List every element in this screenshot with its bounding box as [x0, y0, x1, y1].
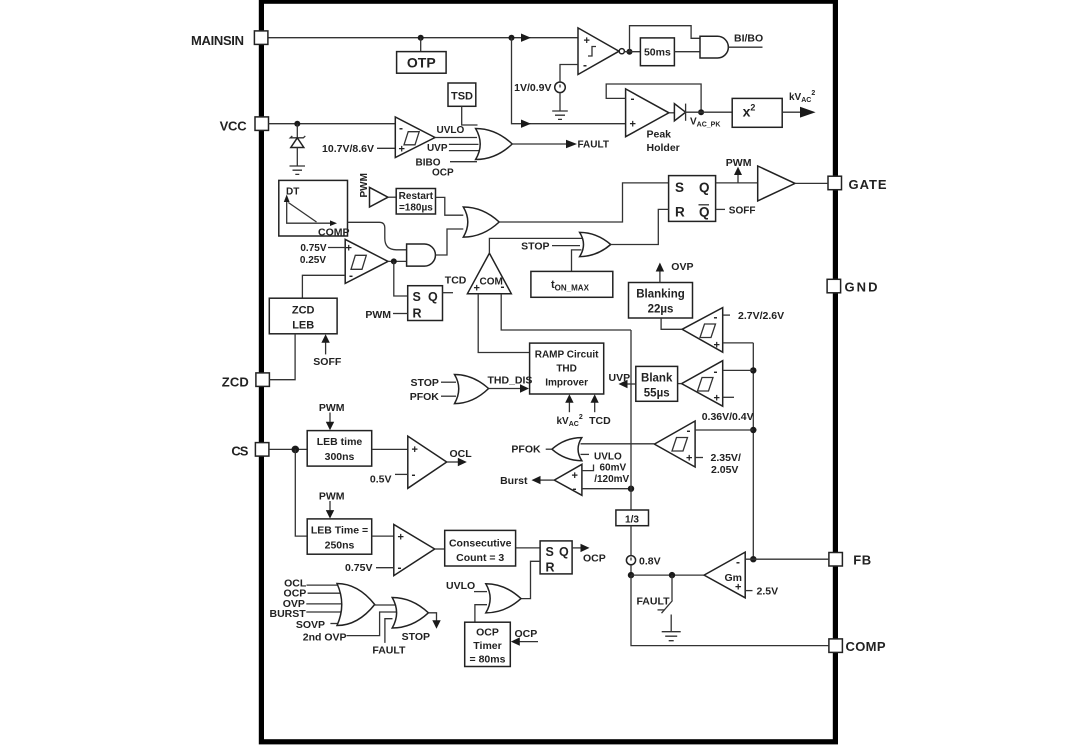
svg-text:PFOK: PFOK — [511, 444, 541, 456]
wire FAULT output — [512, 143, 566, 145]
wire diode to x2 — [686, 111, 733, 113]
svg-text:+: + — [346, 243, 352, 255]
block Blanking 22us — [629, 283, 693, 319]
svg-text:PWM: PWM — [319, 490, 345, 502]
svg-text:1/3: 1/3 — [625, 514, 639, 525]
comparator FB 2.35V/2.05V — [654, 421, 695, 467]
comparator COM up — [467, 253, 511, 294]
svg-text:FAULT: FAULT — [636, 595, 670, 607]
wire node down to S — [394, 261, 408, 296]
arrow OVP out — [659, 270, 661, 283]
svg-text:Q: Q — [699, 205, 710, 220]
svg-text:BI/BO: BI/BO — [734, 33, 763, 45]
wire Qbar SOFF — [716, 208, 725, 210]
wire comp1 out to blanking — [661, 318, 682, 329]
svg-text:COMP: COMP — [846, 639, 886, 654]
svg-text:OCP: OCP — [515, 628, 538, 640]
inverting bubble — [619, 49, 624, 54]
AND gate BI/BO — [700, 36, 728, 58]
wire UVLO to OR — [435, 137, 477, 139]
svg-text:300ns: 300ns — [325, 451, 355, 463]
svg-text:S: S — [546, 545, 554, 559]
svg-text:Blank: Blank — [641, 373, 673, 385]
buffer gate driver — [758, 166, 795, 201]
svg-text:GATE: GATE — [849, 177, 887, 192]
svg-text:2.05V: 2.05V — [711, 464, 738, 476]
op-amp Peak Holder — [626, 89, 669, 137]
svg-text:-: - — [631, 92, 635, 106]
wire 0.36V stub — [723, 396, 734, 398]
svg-text:/120mV: /120mV — [594, 474, 629, 485]
latch SR TCD — [408, 286, 443, 321]
svg-text:-: - — [412, 468, 416, 482]
node bus comp2 — [750, 367, 756, 373]
wire to Gm input — [631, 574, 704, 576]
comparator Burst (left) — [554, 464, 582, 495]
svg-text:TSD: TSD — [451, 91, 473, 103]
arrow PWM into leb1 — [329, 413, 331, 424]
svg-text:=180µs: =180µs — [399, 203, 433, 214]
svg-text:FAULT: FAULT — [372, 644, 406, 656]
svg-text:-: - — [399, 121, 403, 135]
wire branch down to peak holder — [512, 38, 626, 124]
wire COM plus input — [478, 294, 529, 353]
arrow OCP out — [572, 547, 582, 549]
wire 0.5V stub — [395, 473, 408, 475]
wire bus 1/3 upper — [630, 330, 632, 510]
wire Q TCD out — [443, 292, 454, 294]
svg-text:10.7V/8.6V: 10.7V/8.6V — [322, 143, 374, 155]
wire or1 to or2 — [375, 604, 397, 606]
svg-text:OCP: OCP — [432, 168, 454, 179]
svg-text:Timer: Timer — [473, 640, 501, 652]
svg-text:+: + — [714, 393, 720, 405]
svg-text:50ms: 50ms — [644, 47, 671, 59]
wire 0.75V stub — [376, 567, 394, 569]
wire STOP stub thd — [441, 381, 456, 383]
svg-text:Peak: Peak — [647, 129, 672, 141]
svg-text:-: - — [714, 310, 718, 324]
node bus FB — [750, 556, 756, 562]
pin GATE — [828, 176, 842, 190]
wire PFOK stub thd — [441, 395, 456, 397]
wire restart to OR — [436, 197, 464, 215]
wire Q to gate buffer — [716, 182, 758, 184]
switch FAULT — [671, 575, 673, 600]
AND gate restart — [407, 244, 436, 266]
wire UVLO stub reset — [474, 591, 487, 593]
svg-text:0.36V/0.4V: 0.36V/0.4V — [702, 411, 754, 423]
block ZCD LEB — [269, 298, 337, 334]
svg-text:-: - — [714, 365, 718, 379]
wire VCC input — [268, 123, 395, 125]
wire 0.75V stub — [328, 247, 345, 249]
wire minus to ZCD LEB — [302, 275, 345, 298]
svg-text:= 80ms: = 80ms — [470, 654, 506, 666]
OR gate uvlo reset — [486, 584, 521, 613]
svg-text:SOFF: SOFF — [313, 356, 342, 368]
svg-text:OTP: OTP — [407, 55, 436, 71]
svg-text:250ns: 250ns — [325, 539, 355, 551]
svg-text:-: - — [583, 58, 587, 72]
arrow on branch wire — [521, 120, 531, 128]
node junction MAINSIN branch — [509, 35, 515, 41]
block TSD — [448, 83, 476, 106]
wire FAULT to or2 — [385, 619, 393, 643]
svg-text:Q: Q — [428, 290, 438, 304]
wire comp to consec — [435, 548, 445, 550]
svg-text:OCL: OCL — [450, 448, 473, 460]
svg-text:STOP: STOP — [521, 240, 549, 252]
svg-text:COMP: COMP — [318, 226, 350, 238]
arrow OCL out — [447, 461, 460, 463]
source 0.8V clamp — [626, 556, 635, 565]
svg-text:MAINSIN: MAINSIN — [191, 33, 244, 48]
svg-text:OCP: OCP — [583, 553, 606, 565]
block OCP Timer — [465, 622, 511, 666]
svg-text:Q: Q — [699, 180, 710, 195]
comparator OVP 2.7V/2.6V — [682, 308, 723, 353]
svg-text:55µs: 55µs — [644, 388, 670, 400]
svg-text:ZCD: ZCD — [222, 375, 249, 390]
svg-text:-: - — [736, 555, 740, 569]
svg-text:R: R — [675, 205, 685, 220]
wire UVLO stub pfok — [581, 453, 590, 455]
wire ZCD pin to LEB — [269, 334, 295, 380]
svg-text:R: R — [546, 561, 555, 575]
wire FB bus vertical — [752, 343, 754, 559]
svg-text:S: S — [413, 290, 421, 304]
block 50ms — [640, 38, 674, 66]
arrow OCP into timer — [519, 641, 539, 643]
svg-text:-: - — [687, 424, 691, 438]
svg-text:Blanking: Blanking — [636, 288, 685, 300]
svg-text:+: + — [412, 444, 418, 456]
source 1V/0.9V — [555, 82, 566, 93]
wire 2.7V stub — [723, 314, 730, 316]
node junction MAINSIN/OTP — [418, 35, 424, 41]
svg-text:FAULT: FAULT — [578, 140, 609, 151]
op-amp Gm error amp — [704, 552, 745, 598]
OR gate THD_DIS — [455, 375, 489, 404]
svg-text:-: - — [573, 482, 577, 496]
svg-text:OVP: OVP — [671, 261, 693, 273]
svg-text:VCC: VCC — [220, 118, 248, 133]
svg-text:UVLO: UVLO — [446, 580, 475, 592]
wire leb1 to OCL comp — [372, 448, 408, 450]
svg-text:TCD: TCD — [445, 274, 467, 286]
comparator UVP 0.36V/0.4V — [682, 361, 723, 407]
wire kVAC2 output — [782, 111, 801, 113]
pin GND — [827, 279, 841, 293]
wire bus below 1/3 — [630, 526, 632, 556]
block DT curve — [279, 180, 348, 236]
zener diode on VCC — [296, 124, 298, 138]
svg-text:UVP: UVP — [427, 143, 448, 154]
wire feedback over 50ms to AND — [630, 26, 701, 52]
block RAMP Circuit THD Improver — [530, 343, 604, 394]
wire OR to S input — [499, 183, 668, 222]
svg-text:+: + — [735, 582, 741, 594]
svg-text:0.75V: 0.75V — [300, 243, 326, 254]
svg-text:2nd OVP: 2nd OVP — [303, 631, 347, 643]
svg-text:60mV: 60mV — [600, 463, 627, 474]
svg-text:THD_DIS: THD_DIS — [488, 375, 533, 387]
node bus comp3 — [750, 427, 756, 433]
comparator OCP 0.75V — [394, 525, 435, 576]
ground below zener — [290, 166, 306, 174]
wire tonmax to OR — [572, 250, 582, 272]
wire OTP drop — [420, 38, 422, 52]
svg-text:COM: COM — [480, 277, 503, 288]
svg-text:DT: DT — [286, 187, 299, 198]
svg-text:SOVP: SOVP — [296, 619, 325, 631]
arrow SOFF into ZCD LEB — [325, 341, 327, 354]
wire BURST stub — [306, 611, 341, 613]
wire OCP stub — [308, 592, 345, 594]
wire COM apex to OR stop — [489, 238, 582, 253]
svg-text:2.7V/2.6V: 2.7V/2.6V — [738, 310, 784, 322]
wire CS input — [269, 448, 307, 450]
wire BIBO input — [450, 161, 477, 163]
wire R to uvlo OR — [521, 561, 540, 598]
wire stub to plus — [377, 147, 395, 149]
svg-text:0.5V: 0.5V — [370, 474, 392, 486]
wire FB pin to Gm and bus — [745, 558, 829, 560]
svg-text:+: + — [572, 470, 578, 482]
wire 2.35V stub — [695, 457, 703, 459]
arrow on MAINSIN wire — [521, 34, 531, 42]
wire OVP stub — [306, 603, 345, 605]
wire comp3 minus to bus — [695, 429, 753, 431]
block LEB time 300ns — [307, 431, 372, 467]
svg-text:PWM: PWM — [726, 157, 752, 169]
OR gate stop1 — [337, 584, 375, 626]
wire DT output S-curve to AND — [348, 222, 407, 250]
svg-text:0.25V: 0.25V — [300, 255, 326, 266]
wire MAINSIN input line — [268, 37, 578, 39]
arrow Burst out — [539, 479, 554, 481]
svg-text:0.8V: 0.8V — [639, 556, 661, 568]
arrow TCD into RAMP — [594, 401, 596, 412]
wire PWM to R — [393, 313, 408, 315]
OR gate stop2 — [392, 598, 428, 629]
wire THD_DIS to RAMP — [489, 388, 522, 390]
svg-text:+: + — [474, 283, 480, 295]
wire buffer to restart — [388, 196, 396, 198]
svg-text:PFOK: PFOK — [410, 391, 440, 403]
comparator U_BIBO 1V/0.9V — [578, 28, 619, 75]
wire burst minus to bus — [582, 488, 631, 490]
svg-text:+: + — [630, 119, 636, 131]
wire consec to SR — [516, 547, 541, 549]
svg-text:Restart: Restart — [399, 191, 434, 202]
wire comp3 out to PFOK OR — [581, 443, 655, 445]
wire comp2 out — [678, 383, 682, 385]
wire CS branch down to leb2 — [295, 449, 307, 536]
svg-text:LEB Time =: LEB Time = — [311, 524, 368, 536]
svg-text:GND: GND — [845, 280, 878, 295]
svg-text:+: + — [398, 532, 404, 544]
svg-text:Count = 3: Count = 3 — [456, 552, 504, 564]
wire down to COMP pin — [631, 575, 829, 646]
svg-text:+: + — [714, 340, 720, 352]
pin CS — [255, 443, 269, 457]
node diode output — [698, 109, 704, 115]
wire OR stop to R input — [611, 209, 669, 244]
wire peak holder feedback — [606, 84, 701, 112]
wire timer to OR — [475, 605, 487, 623]
node CS branch — [292, 446, 300, 454]
svg-text:Burst: Burst — [500, 475, 528, 487]
svg-text:2.35V/: 2.35V/ — [711, 452, 741, 464]
svg-text:Consecutive: Consecutive — [449, 537, 512, 549]
OR gate PFOK (left) — [552, 438, 582, 461]
node VCC/zener — [294, 121, 300, 127]
comparator OCL — [408, 436, 447, 488]
svg-text:-: - — [349, 269, 353, 283]
svg-text:-: - — [501, 280, 505, 294]
svg-text:THD: THD — [556, 364, 577, 375]
wire 2nd OVP to or2 — [347, 612, 397, 636]
svg-text:TCD: TCD — [589, 415, 611, 427]
pin ZCD — [256, 373, 270, 387]
wire UVP inputs — [449, 144, 480, 150]
arrow PWM tap — [737, 172, 739, 183]
wire comp1 plus to bus — [723, 342, 754, 344]
svg-text:+: + — [686, 453, 692, 465]
svg-text:+: + — [584, 35, 590, 47]
svg-text:UVLO: UVLO — [437, 125, 465, 136]
svg-text:PWM: PWM — [359, 173, 370, 197]
svg-text:SOFF: SOFF — [729, 206, 756, 217]
wire comp2 minus to bus — [723, 369, 754, 371]
svg-text:STOP: STOP — [410, 377, 438, 389]
pin COMP — [829, 639, 843, 653]
latch SR gate — [669, 176, 716, 222]
comparator ZCD 0.75V/0.25V — [345, 239, 388, 283]
pin VCC — [255, 117, 269, 130]
block x squared — [732, 98, 782, 127]
node after bubble — [627, 49, 633, 55]
svg-text:PWM: PWM — [365, 309, 391, 321]
wire AND out to OR — [436, 229, 464, 255]
svg-text:Q: Q — [559, 545, 569, 559]
wire leb2 to comp — [372, 535, 394, 537]
svg-text:ZCD: ZCD — [292, 305, 315, 317]
svg-text:RAMP Circuit: RAMP Circuit — [535, 350, 599, 361]
block OTP — [397, 52, 447, 74]
diode after peak holder — [669, 112, 675, 114]
wire STOP stub — [552, 245, 580, 247]
arrow UVP out of blank — [626, 383, 636, 385]
block 1/3 — [616, 510, 649, 526]
svg-text:1V/0.9V: 1V/0.9V — [514, 82, 551, 94]
svg-text:BURST: BURST — [270, 608, 307, 620]
wire BI/BO output — [728, 46, 762, 48]
svg-text:CS: CS — [231, 444, 248, 459]
arrow kVAC2 into RAMP — [568, 401, 570, 412]
svg-text:S: S — [675, 180, 684, 195]
arrow PWM into leb2 — [329, 501, 331, 512]
svg-text:OCP: OCP — [476, 627, 499, 639]
wire to 50ms — [624, 51, 640, 53]
wire COM minus input — [501, 294, 631, 330]
svg-text:UVP: UVP — [609, 372, 631, 384]
block Consecutive Count — [445, 530, 516, 566]
wire OCL stub — [307, 584, 342, 586]
svg-text:Holder: Holder — [647, 142, 680, 154]
OR gate set — [463, 207, 499, 237]
block Blank 55us — [636, 366, 678, 401]
svg-text:-: - — [398, 561, 402, 575]
wire 50ms to AND — [674, 51, 700, 53]
svg-text:UVLO: UVLO — [594, 451, 622, 462]
ground fault switch — [662, 632, 681, 641]
svg-text:Improver: Improver — [545, 378, 588, 389]
svg-text:PWM: PWM — [319, 402, 345, 414]
svg-text:22µs: 22µs — [648, 304, 674, 316]
wire source to minus input — [560, 65, 578, 83]
node burst bus — [628, 486, 634, 492]
OR gate stop — [580, 232, 611, 256]
wire comp out to AND — [388, 260, 407, 262]
wire SOVP stub — [330, 623, 341, 625]
svg-text:STOP: STOP — [402, 631, 430, 643]
comparator UVLO — [395, 117, 435, 158]
node fault switch tap — [669, 572, 675, 578]
IC boundary frame — [261, 1, 835, 742]
pin FB — [829, 553, 843, 567]
block LEB Time 250ns — [307, 519, 372, 554]
svg-text:0.75V: 0.75V — [345, 562, 372, 574]
latch SR OCP — [540, 541, 572, 574]
wire buffer to GATE pin — [795, 182, 828, 184]
block tON_MAX — [531, 271, 613, 297]
svg-text:FB: FB — [853, 553, 871, 568]
wire clamp to node — [630, 565, 632, 575]
block Restart — [396, 189, 435, 215]
wire PFOK out — [546, 448, 552, 450]
svg-text:LEB time: LEB time — [317, 436, 363, 448]
node comp summing — [628, 572, 634, 578]
svg-text:2.5V: 2.5V — [757, 586, 779, 598]
pin MAINSIN — [254, 31, 268, 45]
ground below source — [552, 93, 568, 120]
wire TSD to OR — [462, 106, 478, 125]
arrow STOP out — [428, 613, 436, 621]
buffer restart — [370, 187, 389, 207]
node comp out — [391, 258, 397, 264]
svg-text:LEB: LEB — [292, 320, 314, 332]
DT axes — [287, 199, 332, 223]
OR gate fault — [476, 129, 513, 160]
wire 2.5V stub — [745, 590, 752, 592]
wire burst plus stub — [582, 465, 594, 471]
svg-text:R: R — [413, 307, 422, 321]
